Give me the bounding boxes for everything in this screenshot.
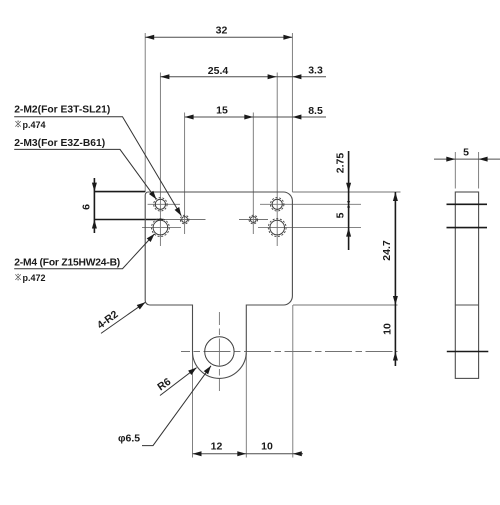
svg-text:2-M3(For E3Z-B61): 2-M3(For E3Z-B61) xyxy=(14,138,105,149)
svg-text:5: 5 xyxy=(335,212,347,218)
svg-text:φ6.5: φ6.5 xyxy=(118,433,140,445)
svg-text:p.472: p.472 xyxy=(23,273,46,283)
svg-text:2-M2(For E3T-SL21): 2-M2(For E3T-SL21) xyxy=(14,105,110,116)
svg-text:25.4: 25.4 xyxy=(208,65,229,77)
svg-text:p.474: p.474 xyxy=(23,120,46,130)
svg-text:6: 6 xyxy=(81,204,93,210)
svg-text:10: 10 xyxy=(382,323,394,335)
svg-text:2-M4 (For Z15HW24-B): 2-M4 (For Z15HW24-B) xyxy=(14,258,120,269)
svg-text:15: 15 xyxy=(216,104,228,116)
svg-text:3.3: 3.3 xyxy=(308,64,323,76)
svg-text:5: 5 xyxy=(463,147,469,159)
svg-text:10: 10 xyxy=(261,441,273,453)
svg-text:24.7: 24.7 xyxy=(381,240,393,261)
svg-text:2.75: 2.75 xyxy=(335,153,347,174)
svg-text:8.5: 8.5 xyxy=(308,105,323,117)
svg-text:32: 32 xyxy=(216,25,228,37)
svg-text:12: 12 xyxy=(211,441,223,453)
